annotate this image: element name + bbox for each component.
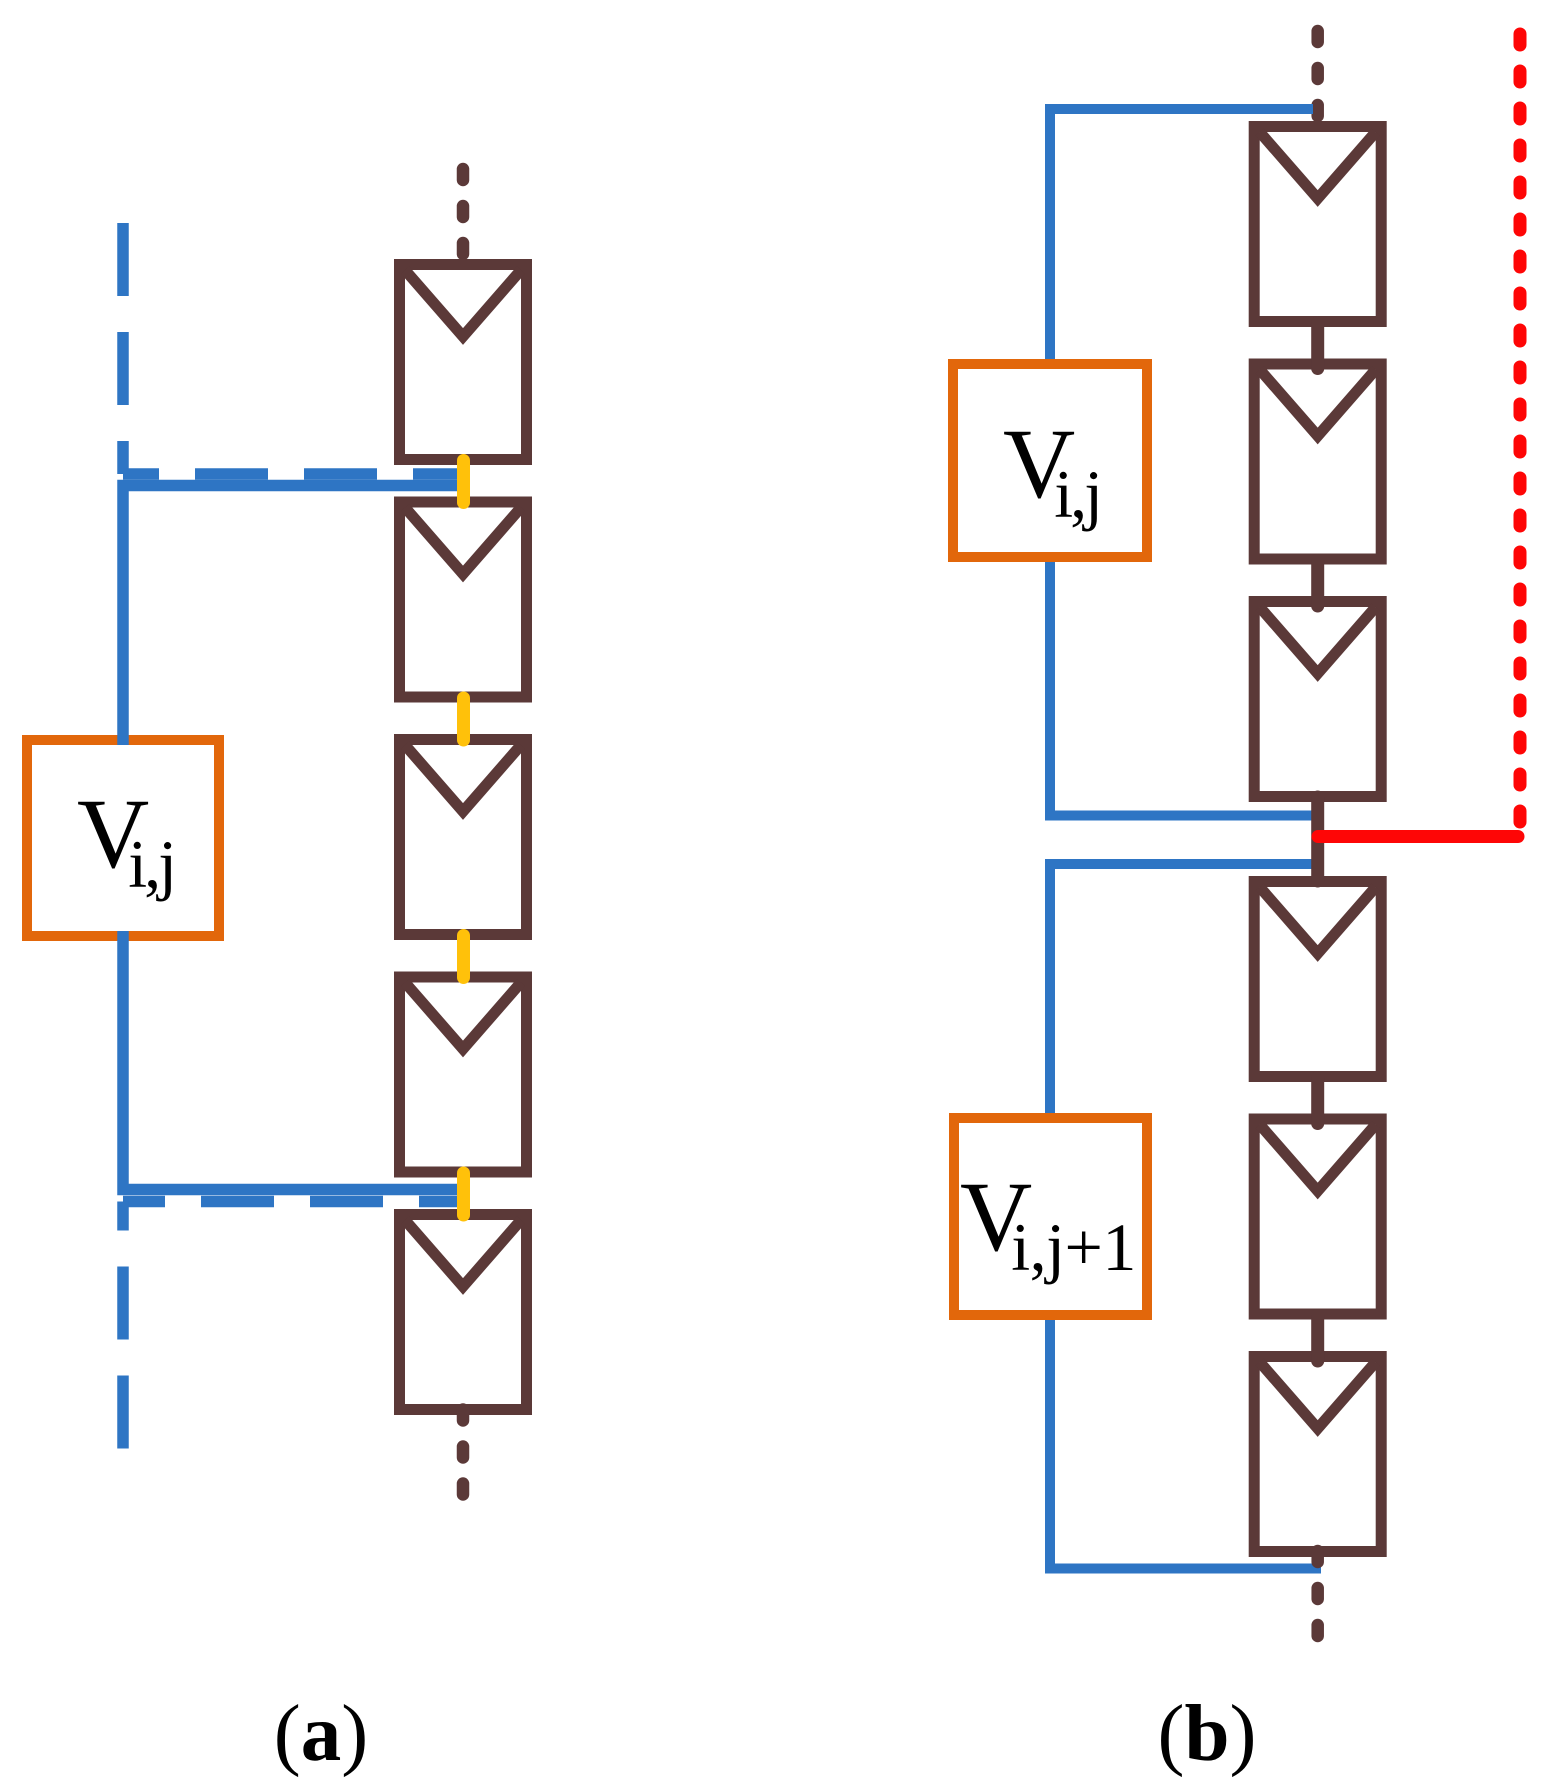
PV cell A1 (400, 265, 527, 460)
voltage sensor box V_i,j figure a (27, 740, 219, 936)
voltage sensor box V_i,j+1 figure b (954, 1118, 1147, 1315)
svg-text:Vi,j+1: Vi,j+1 (960, 1161, 1136, 1285)
wire: dotted brown series-string continuation, bottom of figure b (1311, 1551, 1324, 1637)
wire: solid blue upper lead from node to voltage sensor V_i,j, figure a (123, 486, 458, 746)
wire: blue lead from sensor V_i,j+1 to string bottom, figure b (1050, 1320, 1321, 1569)
wire: blue lead from mid-string node to sensor V_i,j+1, figure b (1050, 864, 1312, 1113)
wire: brown series link B5-B6 (1311, 1315, 1324, 1361)
svg-text:(a): (a) (274, 1688, 368, 1778)
PV cell B2 (1254, 364, 1381, 559)
wire: blue lead from string top to sensor V_i,j, figure b (1050, 109, 1313, 359)
wire: blue lead from sensor V_i,j to mid-string node, figure b (1050, 562, 1312, 816)
wire: dashed blue horizontal tap (previous module) upper, figure a (123, 468, 458, 480)
node: yellow solder joint J4 between cells A4-A5 (457, 1173, 470, 1215)
PV cell B5 (1254, 1119, 1381, 1314)
wire: dashed blue horizontal tap (next module) lower, figure a (123, 1196, 457, 1208)
svg-text:Vi,j: Vi,j (77, 778, 174, 902)
PV cell B4 (1254, 882, 1381, 1077)
wire: dashed blue vertical bus (next module) bottom, figure a (117, 1202, 129, 1453)
wire: dotted brown series-string continuation, top of figure b (1311, 31, 1324, 116)
wire: brown series link B4-B5 (1311, 1078, 1324, 1124)
wire: solid blue lower lead from voltage sensor V_i,j to node, figure a (123, 931, 458, 1190)
wire: brown series link B3-B4 (tapped mid-string node) (1311, 797, 1324, 881)
wire: brown series link B1-B2 (1311, 323, 1324, 369)
PV cell B3 (1254, 602, 1381, 797)
PV cell A4 (400, 977, 527, 1172)
PV cell B1 (1254, 127, 1381, 322)
node: yellow solder joint J1 between cells A1-A2 (457, 461, 470, 503)
voltage sensor box V_i,j figure b (953, 364, 1147, 557)
wire: dotted brown series-string continuation, bottom of figure a (457, 1410, 470, 1498)
node: yellow solder joint J2 between cells A2-A3 (457, 698, 470, 740)
wire: red solid tap lead from mid-string node (1318, 830, 1518, 843)
wire: dashed blue vertical bus (previous module) top, figure a (117, 223, 129, 474)
node: yellow solder joint J3 between cells A3-A4 (457, 936, 470, 978)
PV cell B6 (1254, 1357, 1381, 1552)
wire: red dotted vertical return bus (1514, 34, 1527, 822)
wire: dotted brown series-string continuation, top of figure a (457, 169, 470, 256)
svg-text:(b): (b) (1157, 1688, 1256, 1778)
svg-text:Vi,j: Vi,j (1003, 408, 1100, 532)
PV cell A2 (400, 502, 527, 697)
PV cell A5 (400, 1215, 527, 1410)
wire: brown series link B2-B3 (1311, 560, 1324, 606)
PV cell A3 (400, 740, 527, 935)
